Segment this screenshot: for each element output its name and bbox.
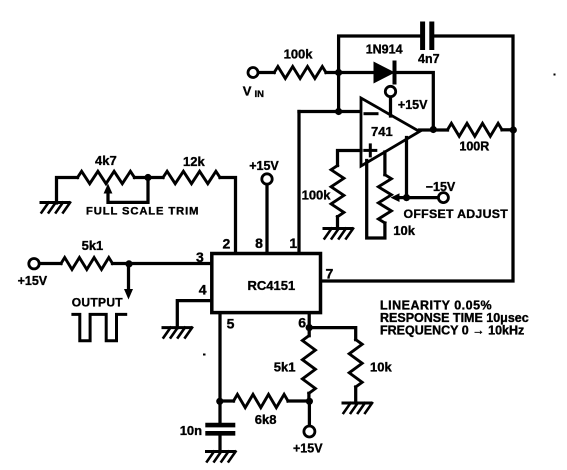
svg-text:12k: 12k	[183, 154, 205, 169]
svg-text:10k: 10k	[370, 360, 392, 375]
svg-text:4k7: 4k7	[95, 153, 117, 168]
svg-text:1N914: 1N914	[366, 43, 403, 57]
svg-text:OUTPUT: OUTPUT	[72, 296, 123, 310]
svg-text:5: 5	[227, 316, 235, 332]
svg-text:+15V: +15V	[293, 442, 323, 456]
svg-text:6: 6	[298, 315, 306, 331]
svg-text:2: 2	[223, 236, 231, 252]
svg-text:5k1: 5k1	[274, 360, 296, 375]
svg-text:10n: 10n	[180, 423, 202, 438]
svg-text:3: 3	[196, 249, 204, 265]
svg-text:IN: IN	[255, 89, 265, 100]
svg-text:+15V: +15V	[249, 159, 279, 173]
svg-text:+15V: +15V	[398, 98, 428, 112]
svg-text:741: 741	[371, 124, 393, 139]
svg-text:100k: 100k	[284, 46, 314, 61]
svg-text:100k: 100k	[302, 188, 332, 203]
svg-text:4n7: 4n7	[418, 52, 440, 66]
svg-text:OFFSET ADJUST: OFFSET ADJUST	[404, 207, 509, 221]
svg-text:FULL SCALE TRIM: FULL SCALE TRIM	[86, 206, 199, 218]
svg-text:−15V: −15V	[426, 180, 456, 194]
svg-text:8: 8	[255, 235, 263, 251]
svg-text:7: 7	[326, 266, 334, 282]
svg-text:5k1: 5k1	[82, 238, 104, 253]
svg-text:RC4151: RC4151	[248, 278, 296, 293]
svg-text:1: 1	[289, 235, 297, 251]
svg-text:V: V	[243, 84, 252, 99]
svg-text:10k: 10k	[393, 223, 415, 238]
svg-text:100R: 100R	[459, 140, 489, 154]
svg-text:+15V: +15V	[18, 274, 48, 288]
svg-text:FREQUENCY 0 → 10kHz: FREQUENCY 0 → 10kHz	[380, 324, 524, 338]
svg-text:4: 4	[199, 282, 207, 298]
svg-text:6k8: 6k8	[255, 412, 277, 427]
